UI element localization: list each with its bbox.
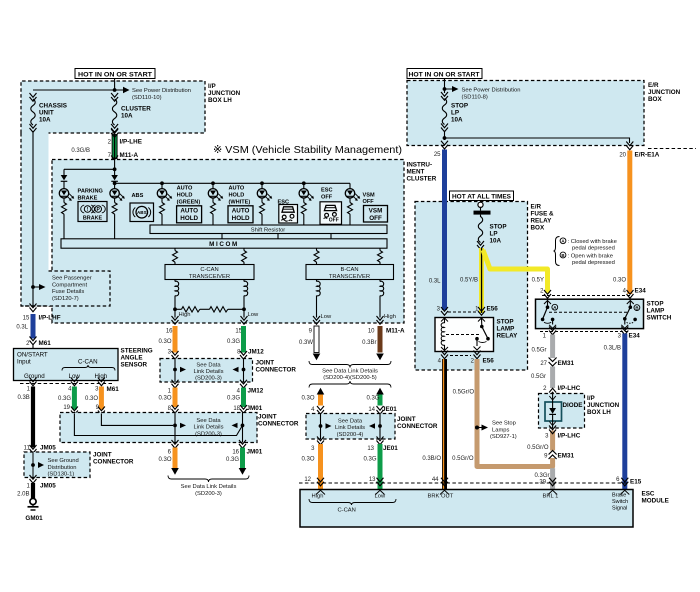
- label I/P JUNCTION BOX LH: [208, 83, 241, 104]
- svg-text:JM12: JM12: [248, 388, 264, 395]
- svg-text:See Ground: See Ground: [48, 458, 79, 464]
- svg-text:HOLD: HOLD: [229, 193, 245, 199]
- diode symbol: [549, 394, 556, 429]
- ticks shift bar to MICOM: [221, 234, 223, 239]
- joint connector JM05 box: [24, 452, 90, 478]
- svg-text:VSM: VSM: [363, 192, 375, 198]
- connector E56 pins 3,1: [448, 311, 479, 313]
- I/P junction box LH (dashed enclosure): [21, 81, 205, 306]
- svg-text:HOLD: HOLD: [177, 193, 193, 199]
- switch linkage dashed: [549, 311, 627, 313]
- MICOM bar: [61, 239, 387, 248]
- svg-text:MICOM: MICOM: [209, 241, 239, 248]
- wire 0.3G to ESC: [378, 444, 383, 490]
- node lamp5: [260, 181, 264, 185]
- wire to pins 25/20: [444, 131, 446, 141]
- wire through JM01 (high): [174, 413, 176, 443]
- node JM12 low: [242, 368, 246, 372]
- connector E34 pins 2,4: [542, 295, 630, 297]
- coil bcan low: [317, 280, 321, 318]
- arrow end high: [171, 468, 179, 475]
- lamp ESC OFF: [299, 183, 333, 225]
- svg-text:CONNECTOR: CONNECTOR: [256, 367, 297, 374]
- svg-text:LAMP: LAMP: [647, 308, 665, 315]
- stop lamp relay box: [435, 318, 494, 352]
- svg-text:HOT IN ON OR START: HOT IN ON OR START: [78, 71, 152, 78]
- connector E15 line: [299, 482, 628, 484]
- svg-text:JOINT: JOINT: [256, 360, 275, 367]
- svg-text:0.3W: 0.3W: [299, 340, 313, 346]
- svg-text:High: High: [179, 312, 191, 318]
- svg-text:12: 12: [304, 477, 311, 483]
- stop lamp switch box: [536, 299, 644, 328]
- wire through JE01 low: [379, 414, 381, 440]
- svg-text:0.3G/B: 0.3G/B: [71, 148, 90, 154]
- steering angle sensor box: [14, 349, 119, 381]
- svg-text:See Power Distribution: See Power Distribution: [462, 88, 521, 94]
- B-CAN TRANSCEIVER box: [306, 265, 394, 280]
- svg-text:※ VSM (Vehicle Stability Manag: ※ VSM (Vehicle Stability Management): [213, 145, 402, 156]
- icon box ABS: [130, 203, 154, 222]
- arrow end low: [239, 468, 247, 475]
- svg-text:LP: LP: [451, 110, 459, 117]
- node lamp6: [302, 181, 306, 185]
- svg-text:M11-A: M11-A: [120, 152, 139, 159]
- Shift Resistor bar: [150, 225, 387, 234]
- See Passenger fuse details box (redraw over cluster): [49, 271, 111, 306]
- svg-text:(SD120-7): (SD120-7): [52, 296, 79, 302]
- resistor micom-bcan low: [314, 248, 319, 264]
- svg-text:10: 10: [368, 329, 375, 335]
- svg-text:0.3B: 0.3B: [17, 395, 29, 401]
- svg-text:RELAY: RELAY: [497, 333, 519, 340]
- connector JM05 pin 11: [30, 445, 37, 453]
- svg-text:18: 18: [233, 406, 240, 412]
- svg-text:SENSOR: SENSOR: [121, 362, 148, 369]
- wire 0.3G JM12-JM01: [241, 388, 246, 408]
- svg-text:BOX LH: BOX LH: [208, 97, 232, 104]
- svg-text:SWITCH: SWITCH: [647, 315, 672, 322]
- wire 0.3O to JE01: [318, 395, 323, 406]
- wire lamp bus left: [64, 168, 115, 170]
- icon box ESC OFF: [320, 202, 342, 225]
- brace b-can data link: [309, 361, 391, 368]
- connector I/P-LHC pin 3: [549, 426, 556, 434]
- svg-text:0.5Gr: 0.5Gr: [531, 348, 546, 354]
- wire 0.5Y/B yellow w black stripe: [479, 248, 484, 313]
- fuse STOP LP 10A (E/R junction): [441, 89, 468, 132]
- svg-text:Switch: Switch: [612, 499, 628, 505]
- svg-text:CHASSIS: CHASSIS: [39, 103, 67, 110]
- svg-text:OFF: OFF: [363, 199, 375, 205]
- svg-text:0.3G: 0.3G: [363, 457, 376, 463]
- svg-text:ON/START: ON/START: [17, 352, 48, 359]
- svg-text:ABS: ABS: [137, 210, 147, 215]
- svg-text:JM01: JM01: [247, 405, 263, 412]
- svg-text:CONNECTOR: CONNECTOR: [397, 423, 438, 430]
- svg-text:Link Details: Link Details: [194, 369, 224, 375]
- arrow end white: [313, 354, 321, 361]
- connector JM01 pins 6,16: [172, 440, 179, 448]
- svg-text:JUNCTION: JUNCTION: [587, 402, 620, 409]
- brace C-CAN: [309, 499, 396, 505]
- svg-text:BOX LH: BOX LH: [587, 409, 611, 416]
- icon box BRAKE: [78, 202, 107, 222]
- svg-text:0.5Gr/O: 0.5Gr/O: [527, 445, 549, 451]
- svg-text:JOINT: JOINT: [93, 452, 112, 459]
- relay switch: [474, 318, 490, 350]
- wire: chassis fuse down-column: [32, 131, 34, 306]
- svg-text:HOT IN ON OR START: HOT IN ON OR START: [409, 71, 480, 78]
- legend B: [560, 252, 566, 258]
- brace see data link: [168, 476, 249, 483]
- fuse CHASSIS UNIT 10A: [30, 93, 68, 132]
- instrument cluster dashed box: [52, 160, 404, 324]
- node: branch to fuse details: [31, 285, 35, 289]
- svg-text:15: 15: [23, 316, 30, 322]
- connector I/P-LHE pin2 / M11-A pin7 (0.3G/B green bar): [71, 129, 142, 164]
- svg-text:(SD200-3): (SD200-3): [195, 431, 222, 437]
- svg-text:(SD130-1): (SD130-1): [48, 472, 75, 478]
- wire 0.5Gr gray (EM31 to I/P-LHC 2): [550, 367, 555, 389]
- svg-text:0.3G: 0.3G: [227, 396, 240, 402]
- svg-text:13: 13: [367, 446, 374, 452]
- I/P junction box LH (diode, dashed): [539, 394, 585, 429]
- svg-text:0.3Br: 0.3Br: [362, 340, 376, 346]
- svg-text:CONNECTOR: CONNECTOR: [93, 459, 134, 466]
- wire: cluster fuse to connector: [114, 131, 116, 136]
- svg-text:OFF: OFF: [329, 218, 339, 224]
- svg-text:Fuse Details: Fuse Details: [52, 289, 84, 295]
- termination resistors: [175, 307, 244, 312]
- svg-text:(SD200-3): (SD200-3): [195, 491, 222, 497]
- svg-text:Distribution: Distribution: [48, 465, 77, 471]
- svg-text:JM05: JM05: [40, 445, 56, 452]
- svg-text:BRAKE: BRAKE: [78, 196, 98, 202]
- svg-text:I/P-LHE: I/P-LHE: [120, 139, 142, 146]
- svg-text:FUSE &: FUSE &: [531, 211, 555, 218]
- svg-text:44: 44: [432, 477, 439, 483]
- resistor micom-ccan low: [242, 248, 247, 264]
- svg-text:Link Details: Link Details: [194, 425, 224, 431]
- wire 0.3O JM01 down: [173, 448, 178, 469]
- wire 0.3B black to ground: [31, 387, 35, 448]
- wire through JM12 (low): [243, 359, 245, 383]
- brace inverted: [309, 381, 391, 388]
- wire: feed bus y=90: [33, 89, 123, 91]
- wire through JM12 (high): [174, 359, 176, 383]
- svg-text:See Stop: See Stop: [492, 421, 516, 427]
- svg-text:pedal depressed: pedal depressed: [572, 245, 615, 251]
- terminal circle: [478, 202, 483, 207]
- connector E34 pins 1,3: [540, 331, 630, 333]
- svg-text:MODULE: MODULE: [642, 498, 669, 505]
- svg-text:BOX: BOX: [531, 225, 545, 232]
- svg-text:ANGLE: ANGLE: [121, 355, 143, 362]
- svg-text:I/P-LHC: I/P-LHC: [558, 385, 581, 392]
- joint connector JE01 box: [306, 414, 395, 440]
- svg-text:DIODE: DIODE: [563, 402, 583, 409]
- svg-text:High: High: [384, 314, 396, 320]
- svg-text:BRAKE: BRAKE: [83, 216, 103, 222]
- svg-text:0.5Y/B: 0.5Y/B: [460, 278, 478, 284]
- svg-text:JM12: JM12: [248, 349, 264, 356]
- wire 0.3B/O black-orange (relay pin4 to ESC 44): [442, 359, 447, 490]
- connector pin 25: [441, 141, 448, 149]
- svg-text:(WHITE): (WHITE): [229, 200, 251, 206]
- brace over Low/High: [62, 365, 115, 371]
- svg-text:11: 11: [24, 446, 31, 452]
- svg-text:M11-A: M11-A: [386, 328, 405, 335]
- svg-text:High: High: [95, 373, 108, 380]
- svg-text:INSTRU-: INSTRU-: [407, 162, 433, 169]
- svg-text:(SD200-3): (SD200-3): [195, 375, 222, 381]
- wire 0.5Gr/O tan (relay pin2 down, right, up to diode): [477, 359, 553, 467]
- svg-text:10A: 10A: [39, 117, 51, 124]
- svg-text:16: 16: [166, 329, 173, 335]
- svg-text:0.3O: 0.3O: [85, 396, 98, 402]
- svg-text:B: B: [635, 305, 638, 310]
- svg-text:M61: M61: [107, 386, 120, 393]
- svg-text:(SD110-8): (SD110-8): [462, 94, 488, 100]
- HOT IN ON OR START label box (left): [75, 69, 155, 79]
- wire 0.3W white: [314, 326, 319, 353]
- svg-text:14: 14: [368, 407, 375, 413]
- svg-text:Low: Low: [69, 373, 81, 380]
- svg-text:0.3B/O: 0.3B/O: [422, 456, 441, 462]
- connector JM05 pin 1: [30, 475, 37, 483]
- node junction at cluster fuse top: [113, 88, 117, 92]
- svg-text:STEERING: STEERING: [121, 348, 153, 355]
- svg-text:0.3O: 0.3O: [301, 396, 314, 402]
- coil ccan high: [175, 280, 179, 310]
- svg-text:0.3L: 0.3L: [16, 325, 28, 331]
- connector JM12 pins 1,4: [172, 380, 179, 388]
- svg-text:0.3O: 0.3O: [158, 339, 171, 345]
- svg-text:STOP: STOP: [451, 103, 468, 110]
- wire lamp bus right: [115, 182, 350, 184]
- node lamp4: [211, 181, 215, 185]
- svg-text:Link Details: Link Details: [335, 425, 365, 431]
- svg-text:JUNCTION: JUNCTION: [208, 90, 241, 97]
- svg-text:(GREEN): (GREEN): [177, 200, 201, 206]
- svg-text:0.3O: 0.3O: [301, 457, 314, 463]
- svg-text:See Data: See Data: [196, 362, 221, 368]
- node lamp3: [160, 181, 164, 185]
- arrow See Power Distribution (SD110-10): [123, 87, 130, 94]
- svg-text:EM31: EM31: [558, 453, 575, 460]
- svg-text:Brake: Brake: [612, 493, 626, 499]
- connector M11-A pins 16,15,9,10: [172, 316, 179, 324]
- svg-text:E34: E34: [629, 333, 641, 340]
- svg-text:0.3Gr: 0.3Gr: [534, 473, 549, 479]
- fuse STOP LP 10A (E/R fuse&relay): [477, 215, 507, 250]
- svg-text:Compartment: Compartment: [52, 282, 88, 288]
- icon box ESC (car skid): [279, 205, 298, 224]
- svg-text:I/P-LHF: I/P-LHF: [39, 315, 61, 322]
- svg-text:E/R: E/R: [531, 204, 542, 211]
- lamp AUTO HOLD (GREEN): [157, 183, 200, 225]
- wire 0.3Gr gray (to ESC 39): [550, 468, 555, 489]
- coil bcan high: [380, 280, 384, 318]
- svg-text:JM01: JM01: [247, 449, 263, 456]
- relay coil: [441, 318, 448, 351]
- svg-text:OFF: OFF: [369, 215, 382, 222]
- lamp PARKING BRAKE: [59, 189, 103, 239]
- svg-text:JM05: JM05: [40, 483, 56, 490]
- svg-text:See Data: See Data: [196, 418, 221, 424]
- svg-text:0.3G: 0.3G: [58, 396, 71, 402]
- svg-text:0.5Gr/O: 0.5Gr/O: [453, 390, 475, 396]
- node JE01 low: [378, 424, 382, 428]
- wire 0.3L/B blue (switch pin3 to ESC 6): [622, 334, 627, 490]
- connector M61 pin 2: [30, 337, 37, 345]
- svg-text:PARKING: PARKING: [78, 189, 103, 195]
- HOT AT ALL TIMES label box: [450, 191, 514, 201]
- svg-text:See Power Distribution: See Power Distribution: [132, 88, 191, 94]
- arrow start low (JE01): [376, 388, 384, 395]
- svg-text:Low: Low: [248, 312, 259, 318]
- diode (parking brake lamp): [61, 175, 68, 181]
- switch contact A: [541, 301, 558, 329]
- svg-text:BOX: BOX: [648, 96, 662, 103]
- diode (abs lamp): [111, 175, 118, 181]
- svg-text:0.3G: 0.3G: [227, 339, 240, 345]
- icon box VSM OFF: [364, 206, 388, 223]
- lamp ESC: [257, 183, 289, 225]
- svg-text:STOP: STOP: [490, 224, 507, 231]
- legend A: [560, 238, 566, 244]
- lamp ABS: [110, 189, 144, 239]
- wire 0.3L blue: [31, 314, 36, 339]
- connector E56 pins 4,2: [450, 355, 471, 357]
- svg-text:E56: E56: [483, 358, 495, 365]
- svg-text:JE01: JE01: [383, 445, 398, 452]
- pin chevrons inside: [316, 490, 629, 494]
- svg-text:CLUSTER: CLUSTER: [407, 176, 437, 183]
- svg-text:C-CAN: C-CAN: [200, 267, 218, 273]
- arrow end brown: [376, 354, 384, 361]
- svg-text:0.3L: 0.3L: [429, 279, 441, 285]
- svg-text:0.5Y: 0.5Y: [532, 278, 544, 284]
- connector I/P-LHC pin 2: [549, 388, 556, 396]
- svg-text:BRK OUT: BRK OUT: [428, 494, 454, 500]
- svg-text:HOLD: HOLD: [232, 215, 250, 222]
- svg-text:LP: LP: [490, 231, 498, 238]
- icon box AUTO HOLD 2: [228, 206, 253, 223]
- wire 0.3L blue (pin25 to relay): [442, 150, 447, 311]
- svg-text:CONNECTOR: CONNECTOR: [258, 421, 299, 428]
- svg-text:10A: 10A: [490, 238, 502, 245]
- svg-text:I/P: I/P: [208, 83, 216, 90]
- ESC module box: [300, 490, 633, 528]
- switch contact B: [621, 301, 640, 329]
- relay linkage dashed: [446, 334, 480, 336]
- node JM01 low: [241, 424, 245, 428]
- wire 0.3O orange (pin20 to switch): [627, 151, 632, 295]
- icon box AUTO HOLD 1: [177, 206, 202, 223]
- svg-text:E/R-E1A: E/R-E1A: [635, 152, 660, 159]
- svg-text:Input: Input: [17, 359, 31, 366]
- svg-text:10A: 10A: [121, 113, 133, 120]
- in-line connector EM31 pin 9: [550, 451, 556, 459]
- fuse CLUSTER 10A: [111, 93, 151, 132]
- wire 2.0B: [31, 483, 35, 498]
- svg-text:25: 25: [434, 152, 441, 158]
- svg-text:CLUSTER: CLUSTER: [121, 106, 151, 113]
- svg-text:0.3G: 0.3G: [226, 457, 239, 463]
- svg-text:MENT: MENT: [407, 169, 425, 176]
- wire 0.3G JM01 down: [240, 448, 245, 469]
- svg-text:E15: E15: [630, 479, 642, 486]
- wire 0.3G to JE01: [378, 395, 383, 406]
- resistor micom-ccan high: [173, 248, 178, 264]
- svg-text:E56: E56: [487, 306, 499, 313]
- connector I/P-LHF pin 15: [30, 304, 37, 312]
- svg-text:Low: Low: [321, 314, 332, 320]
- E/R junction box (dashed): [407, 81, 644, 146]
- svg-text:GM01: GM01: [25, 515, 43, 522]
- E/R fuse & relay box (dashed): [415, 202, 528, 371]
- wire 0.3G green sensor low: [72, 387, 77, 410]
- svg-text:Shift Resistor: Shift Resistor: [251, 228, 286, 234]
- joint connector JM12 box: [160, 359, 253, 383]
- svg-text:EM31: EM31: [558, 360, 575, 367]
- svg-text:BRL 1: BRL 1: [543, 494, 559, 500]
- node fuse top: [443, 87, 447, 91]
- svg-text:13: 13: [369, 477, 376, 483]
- svg-text:: Open with brake: : Open with brake: [568, 253, 613, 259]
- svg-text:(SD110-10): (SD110-10): [132, 95, 162, 101]
- connector JE01 pins 3,13: [317, 437, 324, 445]
- svg-text:AUTO: AUTO: [180, 208, 198, 215]
- lamp AUTO HOLD (WHITE): [208, 183, 250, 225]
- wire sensor low into JM01: [74, 414, 242, 436]
- svg-text:20: 20: [619, 153, 626, 159]
- node lamp bus: [113, 167, 117, 171]
- svg-text:JOINT: JOINT: [258, 414, 277, 421]
- fuse holder bar: [474, 211, 491, 215]
- lamp VSM OFF: [345, 183, 375, 225]
- wire 0.3Br brown: [378, 326, 383, 353]
- wire 0.3O JM12-JM01: [173, 388, 178, 408]
- arrow See Power Distribution (SD110-8): [452, 86, 459, 92]
- svg-text:OFF: OFF: [321, 195, 333, 201]
- svg-text:ABS: ABS: [132, 193, 144, 199]
- svg-text:0.5Gr/O: 0.5Gr/O: [452, 456, 474, 462]
- svg-text:HOLD: HOLD: [180, 215, 198, 222]
- svg-text:0.3L/B: 0.3L/B: [604, 346, 621, 352]
- wire 0.3O cluster pin16: [173, 326, 178, 353]
- wire 0.3G cluster pin15: [241, 326, 246, 353]
- svg-text:B-CAN: B-CAN: [340, 267, 358, 273]
- node ccan high: [173, 307, 177, 311]
- svg-text:ESC: ESC: [642, 491, 655, 498]
- svg-text:(SD200-4)(SD200-5): (SD200-4)(SD200-5): [323, 375, 377, 381]
- wires to cluster pins: [174, 309, 176, 317]
- HOT IN ON OR START label box (right): [407, 69, 482, 79]
- svg-text:E/R: E/R: [648, 82, 659, 89]
- svg-text:RELAY: RELAY: [531, 218, 553, 225]
- wire M11-A pin7 into cluster: [114, 159, 116, 170]
- svg-text:JE01: JE01: [382, 406, 397, 413]
- svg-text:10A: 10A: [451, 117, 463, 124]
- svg-text:TRANSCEIVER: TRANSCEIVER: [329, 274, 370, 280]
- svg-text:C-CAN: C-CAN: [338, 508, 356, 514]
- svg-text:HOT AT ALL TIMES: HOT AT ALL TIMES: [452, 193, 511, 200]
- node see stop lamps: [475, 426, 479, 430]
- legend brace: [554, 237, 560, 266]
